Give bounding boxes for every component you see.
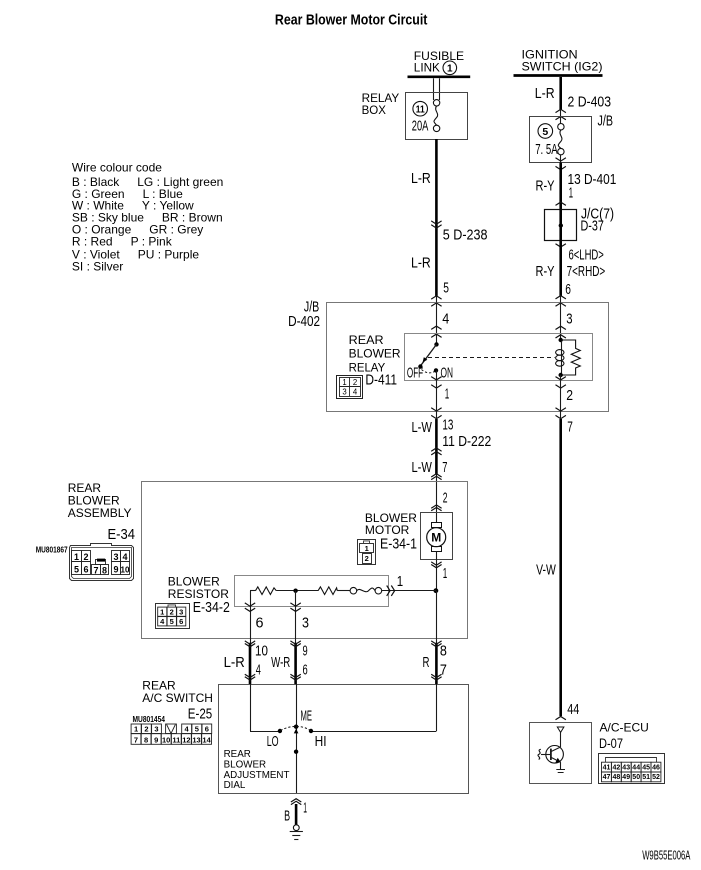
svg-text:20A: 20A	[412, 119, 429, 135]
wire R-Y from J/B to J/C	[559, 163, 562, 210]
chevrons below motor	[431, 562, 441, 565]
circled 5 fuse number	[538, 124, 553, 139]
rear blower assembly box outline	[142, 482, 468, 639]
D-07 connector pin layout icon	[599, 754, 665, 784]
svg-text:10: 10	[162, 735, 170, 744]
svg-text:ADJUSTMENT: ADJUSTMENT	[224, 770, 290, 781]
svg-text:LO: LO	[267, 734, 279, 750]
svg-text:E-34-2: E-34-2	[193, 600, 230, 616]
svg-text:E-25: E-25	[188, 707, 212, 723]
ignition bus bar	[514, 74, 603, 77]
svg-text:7. 5A: 7. 5A	[535, 142, 558, 158]
chevrons below assembly bottom edge	[431, 641, 441, 644]
relay box outline	[406, 93, 468, 140]
svg-text:3: 3	[302, 616, 309, 632]
ECU input triangle pin	[557, 727, 564, 732]
svg-text:LINK: LINK	[414, 61, 440, 75]
svg-text:8: 8	[440, 644, 447, 660]
chevrons at relay top edge (right)	[556, 326, 566, 329]
chevrons at assembly top edge	[431, 474, 441, 477]
J/B D-402 box outline	[327, 303, 609, 412]
rear blower relay box outline	[405, 334, 593, 381]
svg-text:MOTOR: MOTOR	[365, 523, 410, 537]
svg-text:13 D-401: 13 D-401	[568, 172, 617, 188]
svg-text:L-W: L-W	[412, 460, 433, 476]
svg-text:3: 3	[154, 725, 158, 734]
svg-text:4: 4	[353, 387, 358, 396]
svg-text:10: 10	[121, 566, 130, 575]
chevrons at resistor box right edge	[387, 586, 390, 596]
svg-text:B: B	[284, 809, 290, 825]
wire relay to J/B bottom (left)	[436, 381, 438, 412]
svg-text:51: 51	[642, 774, 650, 781]
relay coil top dot	[559, 338, 563, 342]
svg-text:1: 1	[160, 607, 164, 616]
svg-text:Rear Blower Motor Circuit: Rear Blower Motor Circuit	[275, 13, 428, 29]
wire V-W from J/B to A/C-ECU	[560, 412, 562, 419]
svg-text:1: 1	[74, 552, 79, 562]
svg-text:BOX: BOX	[362, 103, 386, 117]
chevron at J/C top	[556, 202, 566, 205]
chevrons below assembly bottom edge	[245, 641, 255, 644]
chevrons at J/B D-402 top edge (right wire)	[556, 296, 566, 299]
J/B fuse box outline	[530, 117, 592, 163]
svg-text:BLOWER: BLOWER	[349, 347, 401, 361]
motor circle M	[427, 528, 446, 547]
fuse element (fusible link) terminals and wavy element	[433, 100, 439, 106]
relay switch common dot	[434, 342, 438, 346]
svg-text:OFF: OFF	[407, 366, 423, 382]
svg-text:9: 9	[303, 644, 308, 660]
LO contact dot	[278, 729, 282, 733]
svg-text:1: 1	[303, 801, 307, 817]
svg-text:6: 6	[205, 725, 209, 734]
svg-text:1: 1	[569, 186, 574, 202]
chevron at ECU entry	[556, 717, 566, 720]
svg-text:6: 6	[179, 617, 183, 626]
svg-text:A/C SWITCH: A/C SWITCH	[142, 691, 213, 705]
svg-text:4: 4	[442, 312, 449, 328]
chevrons above A/C switch top edge	[431, 674, 441, 677]
svg-text:D-402: D-402	[288, 314, 320, 330]
switch wire LO branch	[250, 684, 252, 731]
wire inside J/B to relay (right)	[560, 302, 562, 340]
chevrons at resistor box bottom (pin 6)	[245, 603, 255, 606]
svg-text:J/B: J/B	[598, 114, 614, 130]
svg-text:1: 1	[365, 544, 369, 553]
relay OFF contact dot	[418, 364, 422, 368]
wire from ignition switch	[559, 77, 562, 110]
svg-text:9: 9	[154, 735, 158, 744]
wire assembly to A/C switch at x=295.6	[295, 638, 297, 643]
resistor tap wire 3 (middle)	[295, 591, 297, 638]
svg-text:A/C-ECU: A/C-ECU	[600, 721, 649, 735]
svg-text:R: R	[423, 655, 430, 671]
HI contact dot	[309, 729, 313, 733]
A/C-ECU box outline	[530, 723, 592, 784]
svg-text:D-411: D-411	[365, 373, 397, 389]
chevrons above A/C switch top edge	[245, 674, 255, 677]
switch wiper pivot dot	[294, 750, 298, 754]
svg-text:7<RHD>: 7<RHD>	[567, 264, 606, 280]
svg-text:3: 3	[342, 387, 346, 396]
svg-text:5 D-238: 5 D-238	[443, 228, 488, 244]
svg-text:8: 8	[102, 565, 107, 575]
svg-text:14: 14	[202, 735, 211, 744]
svg-text:7: 7	[134, 735, 138, 744]
chevrons at relay bottom edge (right)	[556, 377, 566, 380]
svg-text:BLOWER: BLOWER	[224, 759, 266, 770]
relay mechanical dashed link	[428, 357, 555, 359]
switch wiper arrowhead at ME	[294, 729, 299, 734]
chevrons above A/C switch top edge	[290, 674, 300, 677]
switch travel dashed arc LO-ME-HI	[281, 726, 311, 730]
relay switch arm	[421, 344, 437, 365]
svg-text:6: 6	[303, 662, 308, 678]
svg-text:13: 13	[192, 735, 200, 744]
circled 11 fuse number	[413, 101, 428, 116]
svg-text:DIAL: DIAL	[224, 780, 246, 791]
svg-text:2: 2	[170, 607, 174, 616]
chevrons at relay bottom edge (left)	[431, 377, 441, 380]
relay ON contact dot	[434, 368, 438, 372]
ground symbol	[290, 831, 303, 833]
svg-text:1: 1	[397, 574, 403, 590]
wire inside J/B to relay (left)	[436, 302, 438, 344]
wire relay to J/B bottom (right)	[560, 381, 562, 412]
svg-text:44: 44	[632, 764, 640, 771]
svg-text:7: 7	[442, 460, 447, 476]
wire transistor to ECU ground	[560, 762, 562, 769]
svg-text:5: 5	[74, 565, 79, 575]
motor brush bottom	[432, 547, 442, 552]
fuse to box bottom wire	[560, 155, 562, 163]
E-34-1 connector pin layout icon	[358, 540, 376, 565]
chevrons at motor connector E-34-1	[431, 505, 441, 508]
power bus bar (fusible link)	[408, 75, 471, 78]
svg-text:1: 1	[445, 387, 450, 403]
svg-text:HI: HI	[315, 734, 327, 750]
svg-text:13: 13	[442, 418, 453, 434]
svg-text:12: 12	[182, 735, 190, 744]
svg-text:49: 49	[622, 774, 630, 781]
rear A/C switch box outline	[219, 685, 469, 794]
svg-text:D-37: D-37	[581, 219, 604, 235]
chevrons below assembly bottom edge	[290, 641, 300, 644]
wire between resistors	[276, 590, 318, 592]
wire assembly to A/C switch at x=436.4	[436, 638, 438, 643]
svg-text:MU801454: MU801454	[133, 715, 166, 724]
inline connector D-222 chevrons	[431, 448, 441, 451]
svg-text:SI : Silver: SI : Silver	[72, 260, 123, 274]
svg-text:R : Red P : Pink: R : Red P : Pink	[72, 234, 173, 248]
svg-text:W9B55E006A: W9B55E006A	[642, 848, 690, 863]
svg-text:1: 1	[342, 378, 346, 387]
svg-text:ME: ME	[301, 709, 313, 725]
chevrons at J/B D-402 bottom edge (right)	[556, 408, 566, 411]
wire R-Y from J/C to J/B D-402	[559, 240, 562, 296]
wire coil to relay bottom	[560, 375, 562, 381]
ECU internal ground symbol	[556, 769, 565, 771]
chevrons at J/B D-402 bottom edge (left)	[431, 408, 441, 411]
svg-text:2 D-403: 2 D-403	[568, 95, 612, 111]
svg-text:44: 44	[567, 702, 579, 718]
svg-text:V-W: V-W	[536, 563, 556, 579]
wire resistor to thermal fuse	[337, 590, 350, 592]
svg-text:REAR: REAR	[224, 749, 251, 760]
svg-text:11 D-222: 11 D-222	[442, 434, 491, 450]
relay switch arm arrowhead	[423, 357, 428, 362]
chevrons at relay top edge (left)	[431, 326, 441, 329]
wire junction to assembly bottom	[436, 591, 438, 638]
svg-text:4: 4	[256, 662, 261, 678]
fuse 7.5A element	[560, 120, 562, 124]
wire through J/C box	[559, 209, 562, 240]
svg-text:41: 41	[603, 764, 611, 771]
motor brush top	[432, 523, 442, 528]
svg-text:11: 11	[416, 105, 425, 116]
blower resistor box outline	[235, 576, 389, 607]
resistor network wires	[250, 590, 256, 592]
ME contact dot	[294, 725, 298, 729]
svg-text:L-R: L-R	[535, 86, 555, 102]
wire L-W from J/B to assembly	[436, 412, 438, 419]
svg-text:2: 2	[83, 552, 88, 562]
chevrons at J/B D-402 top edge (left wire)	[431, 296, 441, 299]
wire thermal fuse to box edge	[382, 590, 436, 592]
svg-text:L-R: L-R	[224, 655, 245, 671]
svg-text:6: 6	[565, 282, 571, 298]
svg-text:6: 6	[83, 565, 88, 575]
svg-text:9: 9	[113, 565, 118, 575]
svg-text:M: M	[431, 531, 441, 545]
wire ON contact to relay bottom	[436, 370, 438, 380]
svg-text:43: 43	[622, 764, 630, 771]
svg-text:E-34: E-34	[108, 527, 136, 543]
E-25 connector pin layout icon	[131, 724, 212, 744]
svg-text:ASSEMBLY: ASSEMBLY	[68, 506, 132, 520]
svg-text:3: 3	[113, 552, 118, 562]
svg-text:5: 5	[195, 725, 199, 734]
svg-text:7: 7	[440, 662, 447, 678]
svg-text:6: 6	[256, 616, 264, 632]
svg-text:5: 5	[542, 126, 548, 138]
svg-text:R-Y: R-Y	[536, 179, 555, 195]
svg-text:2: 2	[353, 378, 357, 387]
svg-text:W-R: W-R	[271, 655, 290, 671]
svg-text:1: 1	[447, 64, 453, 75]
svg-text:52: 52	[652, 774, 660, 781]
svg-text:46: 46	[652, 764, 660, 771]
svg-text:5: 5	[170, 617, 174, 626]
junction dot motor/resistor output	[434, 588, 439, 593]
blower motor box	[421, 513, 453, 560]
svg-text:50: 50	[632, 774, 640, 781]
svg-text:2: 2	[566, 388, 573, 404]
svg-text:5: 5	[443, 281, 449, 297]
svg-text:SWITCH (IG2): SWITCH (IG2)	[522, 60, 603, 74]
ground wire	[295, 804, 298, 825]
relay coil bottom dot	[559, 373, 563, 377]
resistor element 2	[318, 587, 337, 595]
svg-text:4: 4	[122, 552, 127, 562]
svg-text:L-R: L-R	[411, 171, 431, 187]
svg-text:3: 3	[179, 607, 183, 616]
svg-text:3: 3	[566, 312, 572, 328]
relay pin layout icon 1 2 / 3 4	[337, 376, 363, 399]
svg-text:ON: ON	[441, 366, 454, 382]
junction dot in J/C	[559, 223, 563, 227]
svg-text:D-07: D-07	[599, 735, 623, 751]
wire triangle to transistor	[560, 732, 562, 747]
svg-text:8: 8	[144, 735, 148, 744]
svg-text:L-R: L-R	[411, 256, 431, 272]
relay coil parallel resistor	[561, 340, 581, 375]
switch wire ME branch	[296, 684, 298, 793]
relay switch travel dashed arc	[422, 370, 435, 373]
svg-text:1: 1	[134, 725, 138, 734]
svg-text:L-W: L-W	[412, 420, 433, 436]
svg-text:2: 2	[443, 491, 448, 507]
chevrons at J/B fuse box top edge	[556, 109, 566, 112]
svg-text:48: 48	[613, 774, 621, 781]
thermal fuse terminals and element	[350, 587, 357, 594]
svg-text:MU801867: MU801867	[36, 545, 68, 554]
svg-text:2: 2	[365, 554, 369, 563]
svg-text:REAR: REAR	[349, 333, 384, 347]
svg-text:45: 45	[642, 764, 650, 771]
inline connector D-238 chevrons	[431, 221, 441, 224]
wire assembly to A/C switch at x=250.0	[250, 638, 252, 643]
svg-text:1: 1	[443, 566, 448, 582]
chevrons below A/C switch (ground wire)	[291, 799, 301, 802]
svg-text:Wire colour code: Wire colour code	[72, 160, 162, 174]
circled 1 fusible link number	[443, 61, 457, 75]
svg-text:R-Y: R-Y	[536, 264, 555, 280]
chevrons at resistor box bottom (pin 3)	[290, 603, 300, 606]
chevron below J/C box	[556, 244, 566, 247]
E-34-2 connector pin layout icon	[156, 604, 190, 629]
joint connector J/C(7) D-37 box	[545, 210, 577, 241]
svg-text:2: 2	[144, 725, 148, 734]
resistor tap wire 6 (left)	[250, 591, 252, 638]
wire L-R from relay box to J/B D-402	[435, 139, 438, 296]
wire colour code legend	[72, 160, 223, 273]
svg-text:10: 10	[255, 644, 268, 660]
relay coil	[561, 341, 563, 374]
junction dot resistor tap	[293, 589, 297, 593]
svg-text:47: 47	[603, 774, 611, 781]
switch wire HI branch	[436, 684, 438, 731]
svg-text:7: 7	[93, 565, 98, 575]
svg-text:E-34-1: E-34-1	[380, 537, 417, 553]
svg-text:42: 42	[613, 764, 621, 771]
wire assembly top to motor	[436, 482, 438, 522]
svg-text:11: 11	[172, 735, 180, 744]
svg-text:RESISTOR: RESISTOR	[168, 587, 229, 601]
svg-text:6<LHD>: 6<LHD>	[569, 248, 604, 264]
chevrons at J/B fuse box bottom edge	[556, 158, 566, 161]
transistor Q1 (output driver)	[546, 746, 564, 764]
resistor element 1	[256, 587, 277, 595]
ground terminal circle	[293, 825, 299, 831]
E-34 connector pin layout icon	[70, 544, 134, 581]
svg-text:7: 7	[567, 420, 573, 436]
fusible link double-line wire	[433, 78, 435, 100]
wire motor to junction	[436, 552, 438, 591]
